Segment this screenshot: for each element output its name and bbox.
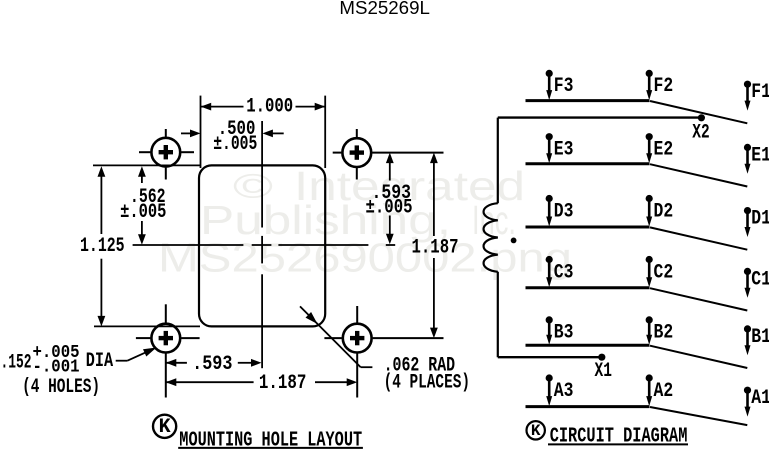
terminal E2 <box>646 133 653 140</box>
terminal D1 <box>744 207 751 214</box>
svg-text:A3: A3 <box>554 380 574 403</box>
node X2 <box>698 114 705 121</box>
terminal D3 <box>546 195 553 202</box>
terminal A2 <box>646 374 653 381</box>
contact bar row E <box>526 162 650 165</box>
extension line left for 1.000 <box>200 96 202 168</box>
dimension .562 +/-.005 <box>138 166 146 177</box>
svg-text:D2: D2 <box>654 200 674 223</box>
svg-text:B2: B2 <box>654 322 674 345</box>
mounting hole bottom-right <box>343 324 372 353</box>
svg-text:E2: E2 <box>654 139 674 162</box>
svg-text:1.187: 1.187 <box>412 236 459 259</box>
dimension 1.187 (right vertical) <box>430 153 438 164</box>
svg-text:E1: E1 <box>751 144 769 167</box>
svg-text:B3: B3 <box>554 322 574 345</box>
terminal F3 <box>546 70 553 77</box>
svg-text:1.000: 1.000 <box>246 96 293 119</box>
svg-text:F2: F2 <box>654 75 674 98</box>
wire to X2 <box>498 116 702 118</box>
terminal C1 <box>744 268 751 275</box>
extension line right for 1.000 <box>324 96 326 168</box>
switch blade C <box>650 288 747 310</box>
svg-text:1.125: 1.125 <box>80 235 125 258</box>
svg-text:C1: C1 <box>751 268 769 291</box>
terminal F2 <box>646 70 653 77</box>
coil polarity dot <box>511 238 517 244</box>
dimension 1.187 (bottom) <box>166 378 177 386</box>
svg-text:MOUNTING HOLE LAYOUT: MOUNTING HOLE LAYOUT <box>179 430 362 449</box>
terminal D2 <box>646 195 653 202</box>
terminal B3 <box>546 316 553 323</box>
svg-text:X2: X2 <box>692 121 709 144</box>
terminal B1 <box>744 325 751 332</box>
case top extension line <box>93 164 200 166</box>
svg-text:C3: C3 <box>554 261 574 284</box>
svg-text:(4 PLACES): (4 PLACES) <box>384 372 470 395</box>
dimension 1.125 <box>98 166 106 177</box>
terminal F1 <box>744 81 751 88</box>
terminal A3 <box>546 374 553 381</box>
terminal C3 <box>546 256 553 263</box>
switch blade D <box>650 227 747 249</box>
watermark <box>158 163 572 281</box>
svg-text:F3: F3 <box>554 75 574 98</box>
circled K (right) <box>527 421 545 439</box>
svg-text:C2: C2 <box>654 261 674 284</box>
contact bar row F <box>526 99 650 102</box>
contact bar row D <box>526 226 650 229</box>
terminal E1 <box>744 144 751 151</box>
svg-text:(4 HOLES): (4 HOLES) <box>22 376 100 399</box>
wire to X1 <box>498 356 602 358</box>
mounting hole bottom-left <box>151 324 180 353</box>
switch blade A <box>650 407 747 425</box>
svg-text:±.005: ±.005 <box>120 201 166 224</box>
contact bar row A <box>526 405 650 408</box>
svg-text:D3: D3 <box>554 200 574 223</box>
svg-text:1.187: 1.187 <box>259 372 307 395</box>
coil wire (vertical) <box>497 118 499 204</box>
leader to bottom-left hole <box>116 360 128 362</box>
switch blade B <box>650 346 747 368</box>
vertical centerline <box>261 121 263 228</box>
svg-text:±.005: ±.005 <box>366 197 413 220</box>
terminal C2 <box>646 256 653 263</box>
inductor coil L <box>484 203 498 272</box>
mounting hole top-left <box>151 138 180 167</box>
dimension .593 +/-.005 (right top) <box>386 153 394 164</box>
svg-text:K: K <box>159 416 171 439</box>
circled K (left) <box>153 415 176 438</box>
mounting hole top-right <box>342 138 371 167</box>
svg-text:F1: F1 <box>751 81 769 104</box>
svg-text:X1: X1 <box>595 360 612 383</box>
svg-text:-.001: -.001 <box>33 357 80 378</box>
case bottom extension line <box>94 325 200 327</box>
svg-text:DIA: DIA <box>86 350 113 373</box>
svg-text:±.005: ±.005 <box>213 133 257 156</box>
contact bar row B <box>526 344 650 347</box>
svg-text:D1: D1 <box>751 208 769 231</box>
dimension .593 (bottom) <box>166 359 177 367</box>
dimension .500 +/-.005 <box>181 132 194 134</box>
svg-text:A1: A1 <box>751 387 769 410</box>
svg-text:.593: .593 <box>192 353 232 376</box>
svg-text:.152: .152 <box>1 352 32 375</box>
switch blade E <box>650 164 747 186</box>
svg-text:E3: E3 <box>554 139 574 162</box>
terminal E3 <box>546 133 553 140</box>
svg-text:B1: B1 <box>751 326 769 349</box>
terminal A1 <box>744 387 751 394</box>
svg-text:MS25269L: MS25269L <box>339 0 430 18</box>
svg-text:A2: A2 <box>654 380 674 403</box>
corner radius note .062 RAD (4 PLACES) <box>300 306 361 367</box>
node X1 <box>598 354 605 361</box>
dimension 1.000 <box>201 106 244 108</box>
horizontal centerline <box>133 244 244 246</box>
switch blade F <box>650 101 747 123</box>
svg-text:MS252690002.png: MS252690002.png <box>158 235 572 281</box>
relay case outline <box>199 165 325 326</box>
contact bar row C <box>526 286 650 289</box>
svg-text:K: K <box>531 422 541 440</box>
terminal B2 <box>646 316 653 323</box>
